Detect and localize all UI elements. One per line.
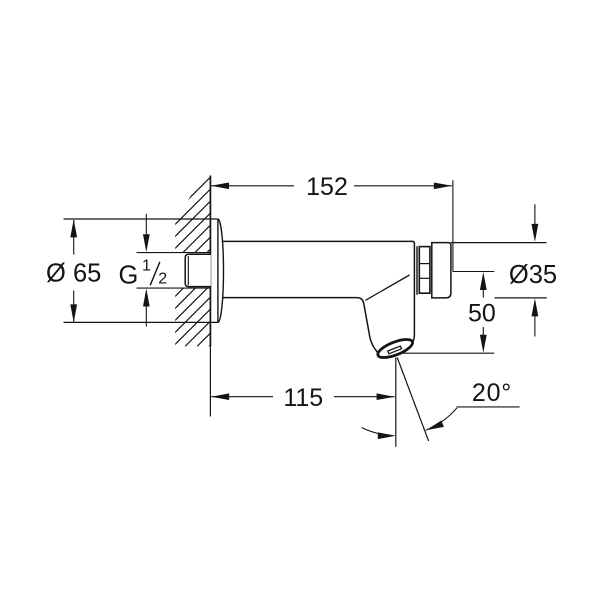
- svg-text:Ø35: Ø35: [509, 261, 557, 289]
- svg-text:152: 152: [306, 173, 348, 201]
- svg-text:115: 115: [283, 384, 323, 412]
- svg-text:1: 1: [142, 257, 151, 274]
- svg-text:Ø 65: Ø 65: [46, 259, 101, 287]
- svg-text:20°: 20°: [472, 379, 512, 407]
- svg-text:2: 2: [158, 271, 167, 288]
- svg-text:G: G: [119, 262, 139, 290]
- svg-text:50: 50: [468, 300, 496, 328]
